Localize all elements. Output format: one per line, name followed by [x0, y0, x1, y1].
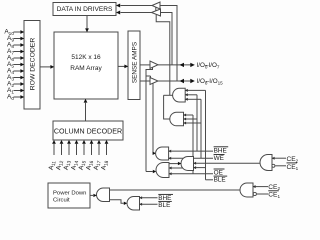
svg-text:COLUMN DECODER: COLUMN DECODER — [54, 127, 122, 135]
svg-text:WE: WE — [214, 155, 224, 162]
svg-text:OE: OE — [214, 170, 223, 177]
svg-text:Power Down: Power Down — [53, 191, 86, 197]
svg-text:512K x 16: 512K x 16 — [71, 54, 101, 61]
svg-text:SENSE AMPS: SENSE AMPS — [131, 42, 138, 83]
svg-text:RAM Array: RAM Array — [70, 65, 102, 72]
svg-text:BLE: BLE — [158, 202, 170, 209]
svg-text:ROW DECODER: ROW DECODER — [30, 38, 37, 91]
svg-text:BHE: BHE — [214, 147, 227, 154]
svg-text:DATA IN DRIVERS: DATA IN DRIVERS — [57, 6, 113, 13]
svg-text:BLE: BLE — [214, 177, 226, 184]
svg-text:Circuit: Circuit — [53, 198, 70, 204]
